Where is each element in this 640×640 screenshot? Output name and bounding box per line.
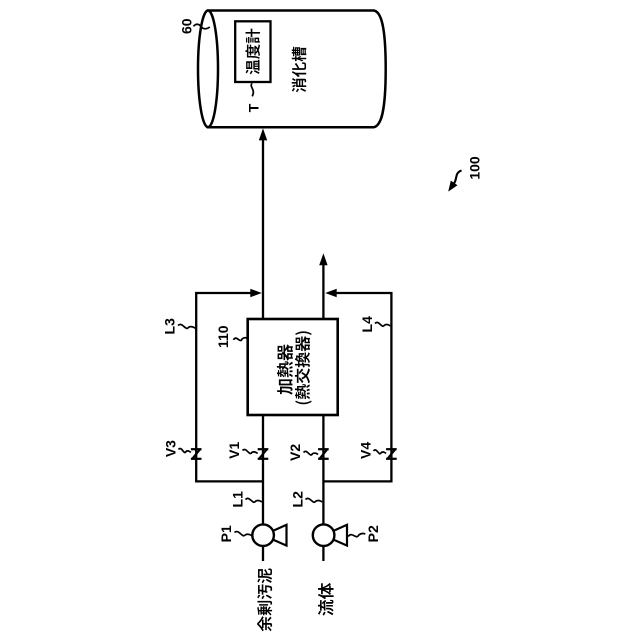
arrowhead of 100 leader <box>448 181 457 192</box>
leader squiggle V4 <box>374 450 387 454</box>
digestion tank end ellipse rim <box>198 11 218 128</box>
valve V2 (on pipe L2) <box>318 449 329 459</box>
label 余剰汚泥 (surplus sludge) <box>257 568 272 631</box>
leader squiggle 110 <box>233 338 247 341</box>
leader squiggle T (vertical) <box>251 83 253 96</box>
svg-text:L3: L3 <box>161 318 177 335</box>
arrowhead L4 into pipe L2 <box>325 289 337 298</box>
wire: bypass line L3 (left loop) <box>196 293 263 481</box>
wire: bypass line L4 (right loop) <box>323 293 391 481</box>
svg-text:110: 110 <box>215 325 231 348</box>
svg-text:60: 60 <box>179 18 195 34</box>
valve V3 (on bypass L3) <box>191 449 202 459</box>
leader squiggle P1 <box>235 532 253 536</box>
leader squiggle 60 <box>194 24 210 29</box>
pump P2 <box>313 524 347 546</box>
svg-text:P1: P1 <box>218 525 234 542</box>
svg-text:V1: V1 <box>226 442 242 459</box>
label 加熱器 (heater) <box>277 344 293 394</box>
arrowhead at top of pipe L2 outlet <box>319 253 327 265</box>
svg-text:L1: L1 <box>229 491 245 508</box>
squiggly leader arrow 100 <box>453 171 462 186</box>
svg-text:T: T <box>246 103 262 112</box>
arrowhead L3 into pipe L1 <box>250 289 261 298</box>
svg-text:P2: P2 <box>365 525 381 542</box>
arrowhead into tank bottom <box>259 128 267 140</box>
svg-text:V4: V4 <box>358 442 374 459</box>
leader squiggle L3 <box>178 324 195 328</box>
label 消化槽 (digestion tank) <box>292 47 307 93</box>
label 流体 (fluid) <box>318 583 334 616</box>
wire: pipe L2 (pump P2 through heater, outlet arrow at top) <box>322 261 324 561</box>
pump P1 <box>252 524 286 546</box>
leader squiggle V2 <box>304 451 319 455</box>
valve V4 (on bypass L4) <box>386 449 397 459</box>
leader squiggle V1 <box>243 449 258 453</box>
svg-text:100: 100 <box>467 156 483 180</box>
leader squiggle V3 <box>179 448 191 452</box>
leader squiggle L1 <box>246 498 262 502</box>
svg-text:V3: V3 <box>162 440 178 457</box>
leader squiggle P2 <box>348 533 365 536</box>
leader squiggle L4 <box>375 322 390 326</box>
leader squiggle L2 <box>306 498 323 502</box>
label 温度計 (thermometer) <box>245 29 260 75</box>
svg-text:V2: V2 <box>287 444 303 461</box>
svg-text:L4: L4 <box>359 316 375 333</box>
valve V1 (on pipe L1) <box>258 449 269 459</box>
wire: feed pipe L1 (pump P1 up to digestion tank) <box>262 135 264 561</box>
label (熱交換器) (heat exchanger) <box>295 331 312 404</box>
svg-text:L2: L2 <box>289 491 305 508</box>
heater box 110 (加熱器/熱交換器) <box>248 319 338 415</box>
digestion tank 60 (cylinder body) <box>208 11 386 128</box>
thermometer box (温度計) <box>235 21 270 82</box>
